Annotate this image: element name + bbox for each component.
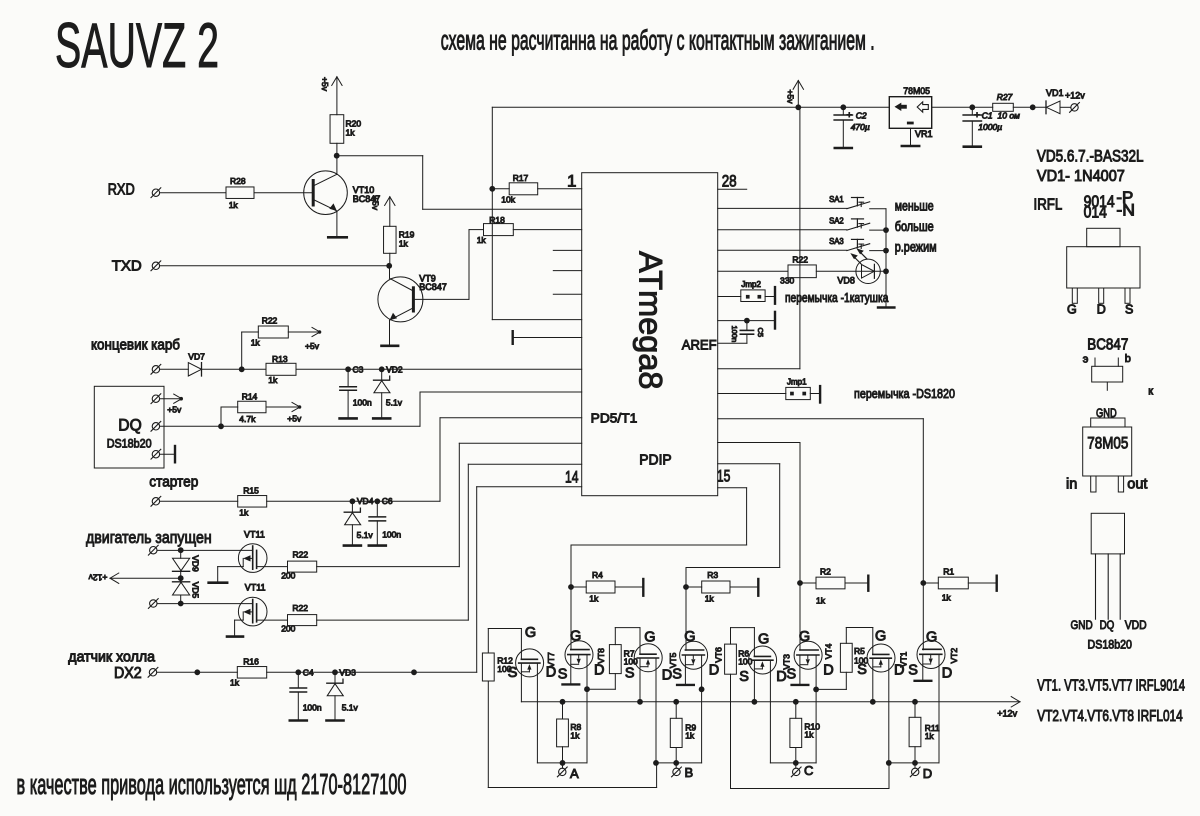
svg-text:VD5.6.7.-BAS32L: VD5.6.7.-BAS32L — [1037, 147, 1144, 165]
node VT4 drain / R5 branch — [813, 687, 819, 693]
regulator VR1 78M05 — [889, 86, 932, 139]
ground VT9 — [382, 344, 399, 347]
wire R12 bottom to node B route — [488, 681, 656, 788]
zener VD2 — [373, 369, 403, 418]
svg-text:+: + — [974, 110, 980, 121]
svg-text:Jmp2: Jmp2 — [741, 280, 761, 289]
label D VT4 — [823, 663, 833, 679]
node B junction left — [653, 760, 659, 766]
svg-text:+: + — [847, 110, 853, 121]
svg-text:+5v: +5v — [167, 405, 182, 415]
wire R13 to MCU pin9 — [296, 368, 582, 370]
node VD9 top — [178, 547, 184, 553]
label S VT5 — [625, 666, 635, 682]
note 9014 -P — [1084, 189, 1134, 211]
node VD1 — [1030, 104, 1036, 110]
power +5v arrow (DS vdd) — [160, 394, 183, 415]
label G VT1 — [875, 629, 886, 645]
svg-text:C4: C4 — [303, 667, 314, 677]
connector DS18b20 box — [94, 386, 164, 468]
label G VT3 — [758, 631, 769, 647]
resistor R22 330 — [780, 255, 816, 286]
note: схема не расчитанна — [441, 24, 875, 55]
pin 14 label — [565, 467, 579, 486]
zener VD4 — [344, 501, 374, 545]
svg-text:1k: 1k — [925, 731, 935, 741]
svg-text:1k: 1k — [230, 678, 240, 688]
svg-text:DX2: DX2 — [114, 665, 142, 682]
svg-text:R22: R22 — [792, 255, 808, 265]
svg-text:VT4: VT4 — [823, 643, 833, 659]
switch SA2 — [718, 215, 886, 230]
svg-text:меньше: меньше — [895, 198, 934, 213]
svg-text:датчик холла: датчик холла — [68, 649, 156, 665]
wire pin15 to phase A feed — [571, 488, 747, 650]
svg-text:BC847: BC847 — [1087, 336, 1128, 353]
wire R2 to bar — [845, 576, 868, 591]
svg-text:перемычка -1катушка: перемычка -1катушка — [785, 290, 889, 305]
terminal концевик — [151, 364, 161, 374]
svg-text:C1: C1 — [982, 110, 993, 120]
svg-text:S: S — [739, 669, 749, 685]
svg-text:+5v: +5v — [320, 77, 330, 92]
node R17 junction — [489, 186, 495, 192]
svg-text:VD8: VD8 — [837, 275, 855, 285]
svg-text:1k: 1k — [804, 730, 814, 740]
svg-text:концевик карб: концевик карб — [91, 336, 180, 353]
MCU label ATmega8 — [633, 251, 669, 390]
pin 15 label — [717, 467, 731, 486]
svg-text:R18: R18 — [489, 215, 505, 225]
transistor VT1 — [867, 644, 908, 672]
svg-text:э: э — [1083, 354, 1089, 366]
transistor VT11 upper — [238, 530, 267, 573]
resistor R16 — [230, 656, 267, 687]
resistor R7 — [609, 645, 638, 674]
svg-text:SAUVZ 2: SAUVZ 2 — [55, 11, 219, 81]
node VT5 source rail — [637, 699, 643, 705]
wire collector node to MCU pin2 — [337, 156, 582, 210]
wire VD1 to +12v terminal — [1060, 106, 1071, 108]
svg-text:A: A — [570, 766, 579, 781]
node C1 — [969, 104, 975, 110]
svg-text:схема не расчитанна на работу: схема не расчитанна на работу с контактн… — [441, 24, 875, 55]
svg-text:D: D — [594, 663, 604, 679]
svg-text:VR1: VR1 — [915, 129, 933, 139]
node VT8 drain / R7 branch — [584, 686, 590, 692]
svg-text:S: S — [787, 667, 797, 683]
MCU label PDIP — [639, 453, 671, 469]
svg-text:R4: R4 — [592, 570, 603, 580]
capacitor C2 — [834, 107, 870, 148]
note VT1 VT3 VT5 VT7 IRFL9014 — [1037, 677, 1185, 694]
transistor VT10 BC847 — [304, 171, 381, 215]
wire VT8 drain to R7 bottom — [587, 674, 615, 690]
wire MCU to Jmp2 — [718, 296, 741, 298]
wire R17 to MCU pin1 — [538, 188, 582, 190]
node DX2 b — [411, 669, 417, 675]
svg-text:R22: R22 — [262, 316, 278, 326]
terminal engine1 — [148, 545, 158, 555]
label S VT6 — [672, 667, 682, 683]
wire node up to R22 — [242, 332, 259, 369]
label S VT4 — [787, 667, 797, 683]
wire DX2 to R16 — [157, 671, 237, 673]
wire MCU to Jmp1 — [718, 393, 786, 395]
wire +12v rail — [521, 697, 1020, 707]
svg-text:G: G — [926, 629, 937, 645]
label D VT6 — [709, 663, 719, 679]
transistor VT2 — [917, 641, 959, 669]
svg-text:PD5/T1: PD5/T1 — [591, 410, 638, 425]
svg-text:10k: 10k — [501, 194, 515, 204]
resistor R8 — [557, 702, 582, 763]
node R1 feed — [920, 580, 926, 586]
resistor R11 — [909, 702, 940, 763]
wire R15 to MCU pin11 — [267, 418, 582, 502]
node D junction — [912, 760, 918, 766]
node SA2 — [883, 227, 889, 233]
svg-text:двигатель запущен: двигатель запущен — [86, 528, 212, 547]
wire R6 top to VT3 gate — [731, 628, 755, 657]
wire VT4 source bar — [792, 655, 809, 685]
svg-text:78M05: 78M05 — [1087, 435, 1128, 453]
wire VT3 source to rail — [753, 660, 755, 702]
wire Jmp2 to bar — [765, 287, 775, 304]
label D VT1 — [894, 663, 904, 679]
wire terminal to VD7 — [160, 368, 189, 370]
wire node A — [537, 762, 587, 764]
wire VD7 to node — [202, 368, 242, 370]
wire node B — [656, 762, 702, 764]
capacitor C3 — [340, 369, 372, 418]
node C4 — [295, 667, 313, 677]
jumper Jmp1 — [786, 378, 811, 400]
svg-text:+5v: +5v — [287, 413, 302, 423]
svg-text:S: S — [508, 665, 518, 681]
label G VT8 — [570, 629, 581, 645]
svg-text:R22: R22 — [293, 550, 309, 560]
capacitor C4 — [290, 672, 322, 720]
svg-text:1k: 1k — [477, 235, 487, 245]
svg-text:перемычка -DS1820: перемычка -DS1820 — [854, 386, 955, 401]
label S VT3 — [739, 669, 749, 685]
transistor VT4 — [794, 641, 833, 669]
node концевик junction — [239, 366, 245, 372]
svg-text:VD5: VD5 — [190, 582, 200, 599]
svg-text:TXD: TXD — [112, 258, 142, 275]
svg-text:VT6: VT6 — [714, 647, 724, 663]
label S VT2 — [908, 663, 918, 679]
wire R22a to MCU pin12 — [317, 443, 582, 566]
svg-text:ATmega8: ATmega8 — [633, 251, 669, 390]
label DX2 — [114, 665, 142, 682]
label D VT5 — [662, 667, 672, 683]
wire VT6 source bar — [677, 655, 694, 685]
wire Jmp1 to bar — [810, 386, 820, 402]
wire VT2 source bar — [915, 654, 932, 681]
package 78M05 — [1083, 418, 1132, 492]
resistor R10 — [790, 702, 820, 763]
node +5v rail junction — [795, 104, 801, 110]
label датчик холла — [68, 649, 156, 665]
svg-text:R27: R27 — [997, 92, 1013, 102]
terminal C — [791, 763, 813, 778]
wire VT5 source to rail — [639, 658, 641, 702]
wire VT8 source bar — [563, 655, 580, 685]
svg-text:S: S — [857, 662, 867, 678]
node TXD R19 — [386, 263, 392, 269]
svg-text:S: S — [908, 663, 918, 679]
wire stub pin xtal2 — [553, 270, 581, 272]
svg-text:4.7k: 4.7k — [239, 414, 256, 424]
node VT3 source rail — [752, 699, 758, 705]
resistor R6 — [725, 644, 753, 674]
wire gnd stub pin — [513, 331, 582, 344]
svg-text:+12v: +12v — [1065, 90, 1085, 100]
wire stub pin — [553, 293, 581, 295]
label D VT2 — [942, 665, 952, 681]
wire phase C feed — [718, 443, 800, 651]
svg-text:RXD: RXD — [108, 181, 135, 198]
svg-text:10 ом: 10 ом — [998, 111, 1021, 121]
wire R1 to bar — [968, 576, 996, 591]
node R8 rail — [560, 699, 566, 705]
label меньше — [895, 198, 934, 213]
node R9 rail — [673, 699, 679, 705]
power +12v arrow left — [88, 573, 181, 584]
svg-text:VD2: VD2 — [386, 364, 403, 374]
wire AREF to C5 — [718, 342, 747, 344]
capacitor C5 — [730, 321, 765, 344]
capacitor C1 — [963, 107, 1002, 146]
svg-text:in: in — [1066, 477, 1077, 493]
label RXD — [108, 181, 135, 198]
resistor R13 — [266, 354, 296, 385]
node VD3 — [332, 667, 356, 677]
wire VT9 base to R18 — [413, 230, 483, 300]
svg-text:VT8: VT8 — [596, 648, 606, 664]
svg-text:Jmp1: Jmp1 — [787, 378, 807, 387]
svg-text:R13: R13 — [272, 354, 288, 364]
svg-text:C2: C2 — [856, 110, 867, 120]
svg-text:1k: 1k — [251, 338, 261, 348]
package DS18b20 TO-92 — [1091, 513, 1124, 619]
label больше — [895, 219, 934, 234]
transistor VT8 — [565, 641, 606, 669]
label концевик карб — [91, 336, 180, 353]
note BC847 pinout — [1087, 336, 1128, 353]
wire pin28 stub — [718, 188, 747, 190]
svg-text:D: D — [1097, 303, 1106, 317]
wire +5v rail top — [492, 106, 889, 108]
note: в качестве привода — [17, 769, 407, 801]
label перемычка -1катушка — [785, 290, 889, 305]
svg-text:R15: R15 — [243, 485, 259, 495]
label in out — [1066, 477, 1147, 493]
transistor VT3 — [749, 646, 792, 674]
svg-text:SA1: SA1 — [829, 194, 844, 204]
svg-text:VD7: VD7 — [188, 351, 205, 361]
svg-text:AREF: AREF — [682, 336, 717, 352]
wire R4 to bar — [615, 579, 643, 596]
svg-text:D: D — [942, 665, 952, 681]
wire VD8 to SA vertical — [884, 270, 886, 272]
svg-text:G: G — [684, 629, 695, 645]
wire stub pin xtal1 — [553, 249, 581, 251]
svg-text:+12v: +12v — [997, 708, 1017, 718]
wire VT11a out to R22 — [257, 566, 288, 568]
node +12v mid — [178, 575, 184, 581]
ground VT11b — [227, 635, 243, 638]
svg-text:1k: 1k — [685, 730, 695, 740]
resistor R5 — [840, 643, 868, 672]
svg-text:1k: 1k — [589, 594, 599, 604]
svg-text:G: G — [799, 629, 810, 645]
wire engine2 to VT11b — [157, 603, 253, 605]
wire node to VT9 collector — [389, 266, 391, 279]
wire R5 top to VT1 gate — [846, 628, 873, 655]
label D VT8 — [594, 663, 604, 679]
diode VD5 — [173, 578, 201, 603]
svg-text:R3: R3 — [707, 570, 718, 580]
node R10 rail — [793, 699, 799, 705]
svg-text:G: G — [570, 629, 581, 645]
label G D S — [1067, 303, 1133, 317]
svg-text:1k: 1k — [268, 375, 278, 385]
wire to R15 — [160, 500, 238, 502]
label к — [1148, 386, 1153, 398]
svg-text:IRFL: IRFL — [1034, 197, 1063, 214]
terminal DS18b20 gnd — [151, 449, 161, 459]
capacitor C6 — [369, 501, 402, 545]
svg-text:14: 14 — [565, 467, 579, 486]
svg-text:BC847: BC847 — [419, 282, 447, 292]
label S VT7 — [508, 665, 518, 681]
wire +5v corner to R17 node — [491, 107, 493, 189]
power +5v arrow (R20) — [320, 77, 342, 115]
resistor R22 gate a — [281, 550, 317, 581]
wire gnd terminal stub — [160, 446, 175, 462]
pin 28 label — [722, 172, 737, 191]
svg-text:S: S — [672, 667, 682, 683]
svg-text:G: G — [758, 631, 769, 647]
svg-text:470µ: 470µ — [851, 122, 870, 132]
svg-text:C3: C3 — [353, 364, 364, 374]
terminal DS18b20 dq — [151, 421, 161, 431]
svg-text:1k: 1k — [705, 594, 715, 604]
wire TXD to R19 node — [160, 265, 389, 267]
node R3 feed — [683, 584, 689, 590]
wire VR1 gnd — [910, 128, 912, 146]
svg-text:5.1v: 5.1v — [357, 530, 374, 540]
resistor R19 — [384, 226, 415, 253]
node C6 — [374, 496, 392, 506]
wire R7 top to VT5 gate — [615, 628, 640, 655]
svg-text:SA2: SA2 — [829, 215, 844, 225]
node R4 feed — [568, 584, 574, 590]
wire R28 to VT10 base — [254, 192, 313, 194]
svg-text:1: 1 — [567, 172, 576, 191]
label G VT5 — [644, 629, 655, 645]
svg-text:5.1v: 5.1v — [386, 398, 403, 408]
svg-text:D: D — [546, 665, 556, 681]
wire R22 to VD8 — [816, 270, 856, 272]
svg-text:VD4: VD4 — [357, 496, 374, 506]
wire SA common vertical — [885, 209, 887, 308]
svg-text:DS18b20: DS18b20 — [107, 437, 152, 451]
wire phase D feed — [718, 419, 924, 650]
svg-text:D: D — [709, 663, 719, 679]
wire VT1 drain to node D — [888, 658, 890, 763]
svg-text:-N: -N — [1116, 201, 1135, 219]
node VD2 — [379, 364, 403, 374]
package IRFL SOT-89 — [1067, 228, 1140, 303]
ground VT10 — [328, 236, 347, 239]
wire R20 to collector node — [336, 143, 338, 155]
transistor VT6 — [680, 641, 724, 669]
note VD5.6.7 BAS32L — [1037, 147, 1144, 165]
switch SA1 — [718, 194, 886, 209]
svg-text:S: S — [625, 666, 635, 682]
node VT6 drain — [699, 686, 705, 692]
resistor R4 — [571, 570, 615, 603]
resistor R14 — [221, 391, 266, 426]
resistor R1 — [923, 567, 968, 603]
svg-text:PDIP: PDIP — [639, 453, 671, 469]
wire RXD to R28 — [160, 192, 226, 194]
svg-text:R22: R22 — [292, 603, 308, 613]
svg-text:в качестве привода используетс: в качестве привода используется шд 2170-… — [17, 769, 407, 801]
svg-text:D: D — [823, 663, 833, 679]
svg-text:out: out — [1127, 477, 1147, 493]
transistor VT11 lower — [238, 583, 267, 626]
svg-text:DQ: DQ — [1100, 618, 1115, 632]
terminal стартер — [151, 496, 161, 506]
diode VD7 — [188, 351, 205, 376]
node VT1 source rail — [870, 699, 876, 705]
diode VD9 — [173, 550, 201, 578]
label G VT4 — [799, 629, 810, 645]
svg-text:330: 330 — [780, 276, 794, 286]
svg-text:1k: 1k — [346, 128, 356, 138]
svg-text:C: C — [804, 763, 813, 778]
svg-text:G: G — [644, 629, 655, 645]
wire VT10 emitter to ground — [336, 211, 338, 237]
svg-text:B: B — [685, 765, 694, 780]
wire engine1 to VT11a — [157, 549, 253, 551]
svg-text:р.режим: р.режим — [895, 239, 937, 254]
wire VT4 drain to node C — [815, 655, 817, 763]
node VD5 bottom — [178, 601, 184, 607]
svg-text:5.1v: 5.1v — [342, 703, 359, 713]
resistor R18 — [477, 215, 514, 245]
wire VT5 drain to node B and R12 route — [655, 658, 657, 763]
svg-text:+12v: +12v — [88, 573, 107, 583]
svg-text:S: S — [558, 667, 568, 683]
note 014 -N — [1084, 201, 1135, 221]
svg-text:1k: 1k — [816, 595, 826, 605]
switch SA3 — [718, 236, 886, 251]
svg-text:1k: 1k — [239, 507, 249, 517]
svg-text:VT2.VT4.VT6.VT8 IRFL014: VT2.VT4.VT6.VT8 IRFL014 — [1037, 708, 1183, 725]
resistor R9 — [670, 702, 696, 763]
terminal DX2 — [148, 667, 158, 677]
label TXD — [112, 258, 142, 275]
svg-text:1k: 1k — [229, 200, 239, 210]
note VT2 VT4 VT6 VT8 IRFL014 — [1037, 708, 1183, 725]
node R11 rail — [912, 699, 918, 705]
